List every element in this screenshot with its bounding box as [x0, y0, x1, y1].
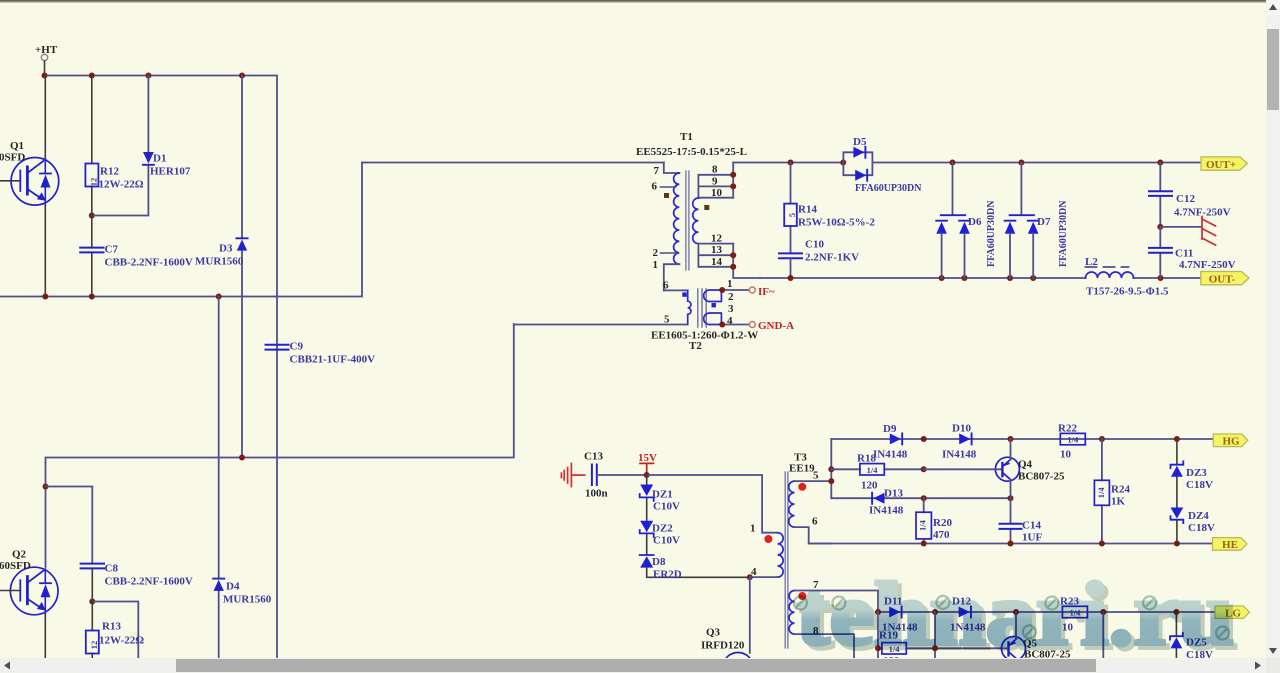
diode D1	[143, 76, 154, 165]
svg-text:5: 5	[813, 470, 819, 482]
diode D12	[959, 607, 971, 618]
junction dot D3 anode	[239, 455, 245, 461]
svg-text:9: 9	[712, 175, 718, 187]
svg-text:C7: C7	[105, 244, 119, 256]
wire R21 bus	[934, 612, 936, 658]
svg-text:10: 10	[711, 187, 723, 199]
svg-text:R20: R20	[933, 517, 952, 529]
wire Q1 emitter	[44, 205, 46, 297]
wire top rail	[45, 76, 278, 658]
wire HG rail	[831, 438, 1213, 440]
svg-text:R13: R13	[102, 621, 121, 633]
svg-text:R12: R12	[100, 166, 119, 178]
transistor Q3	[723, 653, 754, 673]
svg-text:Q1: Q1	[10, 140, 24, 152]
T1 secondary lower taps 12 13 14	[698, 244, 733, 267]
terminal GND-A	[749, 322, 755, 328]
wire OUT- rail	[760, 277, 1201, 279]
junction dots LG rail	[875, 609, 1179, 615]
transistor Q4	[924, 439, 1020, 498]
wire T3 pin5	[795, 480, 832, 482]
svg-text:CBB-2.2NF-1600V: CBB-2.2NF-1600V	[105, 576, 193, 588]
svg-text:1: 1	[653, 259, 659, 271]
svg-text:1: 1	[750, 523, 756, 535]
wire GND-A	[721, 324, 749, 326]
svg-text:C10V: C10V	[653, 535, 680, 547]
wire Q2 drain net	[46, 324, 514, 567]
svg-text:R18: R18	[857, 453, 876, 465]
wire T3 pin8	[795, 634, 855, 657]
svg-text:1/4: 1/4	[867, 465, 879, 475]
port OUT-	[1201, 272, 1249, 286]
capacitor C8	[81, 564, 104, 602]
svg-text:0SFD: 0SFD	[0, 152, 25, 164]
junction dots D13 row	[921, 466, 1014, 501]
junction dot pin1	[719, 287, 725, 293]
wire switch-node rail	[0, 163, 362, 297]
terminal IF~	[749, 287, 755, 293]
capacitor C9	[266, 345, 289, 350]
svg-text:7: 7	[654, 165, 660, 177]
svg-text:CBB21-1UF-400V: CBB21-1UF-400V	[290, 354, 376, 366]
scrollbar vertical	[1266, 0, 1280, 658]
T3 winding pins 7-8	[789, 591, 794, 635]
capacitor C13	[592, 465, 647, 486]
svg-text:D4: D4	[226, 581, 240, 593]
wire gate branch lower	[92, 602, 138, 658]
svg-text:C13: C13	[584, 451, 603, 463]
svg-text:FFA60UP30DN: FFA60UP30DN	[855, 183, 922, 194]
wire T1 pin1 exit	[664, 264, 680, 290]
zener DZ4	[1171, 508, 1184, 544]
svg-text:HER107: HER107	[150, 166, 191, 178]
svg-text:T2: T2	[689, 340, 702, 352]
svg-text:C12: C12	[1176, 193, 1195, 205]
svg-text:ER2D: ER2D	[653, 569, 682, 581]
svg-text:T1: T1	[680, 131, 693, 143]
junction dots top rail	[42, 73, 246, 79]
resistor R14	[784, 163, 797, 254]
scrollbar horizontal	[0, 658, 1266, 673]
svg-text:4.7NF-250V: 4.7NF-250V	[1179, 259, 1236, 271]
svg-text:1/4: 1/4	[1096, 487, 1106, 499]
svg-text:1: 1	[727, 278, 733, 290]
diode D4	[213, 297, 224, 658]
junction dots taps 13 14	[730, 252, 736, 270]
zener DZ1	[640, 475, 654, 521]
wire 15V to T3	[647, 475, 778, 533]
earth ground at C13	[561, 464, 584, 487]
node +HT terminal	[41, 54, 47, 60]
resistor R19	[878, 643, 1007, 654]
svg-text:D10: D10	[952, 423, 971, 435]
svg-text:C18V: C18V	[1188, 522, 1215, 534]
svg-text:100n: 100n	[585, 488, 608, 500]
junction dots taps 8 9	[730, 172, 736, 190]
wire C8 branch	[46, 487, 93, 564]
svg-text:6: 6	[812, 516, 818, 528]
svg-text:D5: D5	[853, 136, 867, 148]
junction dot node 4	[747, 574, 753, 580]
svg-text:R5W-10Ω-5%-2: R5W-10Ω-5%-2	[798, 217, 875, 229]
svg-text:+HT: +HT	[35, 44, 58, 56]
svg-text:2: 2	[653, 247, 659, 259]
svg-text:tehnari.ru: tehnari.ru	[796, 565, 1234, 664]
capacitor C10	[779, 253, 802, 278]
svg-text:8: 8	[712, 164, 718, 176]
svg-text:1UF: 1UF	[1022, 532, 1042, 544]
diode pair D7	[1005, 163, 1039, 279]
svg-text:GND-A: GND-A	[758, 320, 794, 332]
diode pair D5	[843, 147, 872, 181]
svg-text:OUT-: OUT-	[1209, 274, 1236, 286]
capacitor C11	[1149, 227, 1172, 278]
wire R12 to D1 jog	[92, 166, 149, 216]
svg-text:OUT+: OUT+	[1206, 159, 1236, 171]
wire LG rail	[878, 611, 1215, 613]
T1 upper tap bus	[732, 163, 734, 198]
svg-text:12W-22Ω: 12W-22Ω	[99, 179, 144, 191]
capacitor C7	[80, 216, 103, 297]
svg-text:IN4148: IN4148	[869, 505, 904, 517]
transistor Q2	[0, 567, 58, 615]
port HE	[1213, 538, 1248, 552]
wire upper-left bus	[830, 439, 832, 498]
diode D8	[640, 555, 750, 577]
T3 polarity dot 7	[798, 592, 806, 600]
svg-text:13: 13	[711, 244, 723, 256]
junction dot C12 C11	[1157, 224, 1163, 230]
svg-text:D9: D9	[883, 423, 897, 435]
T1 secondary winding	[693, 198, 699, 244]
svg-text:2: 2	[728, 291, 734, 303]
svg-text:D13: D13	[884, 488, 903, 500]
svg-text:HG: HG	[1222, 436, 1240, 448]
inductor L2	[1086, 267, 1134, 278]
T3 polarity dot 5	[798, 483, 806, 491]
wire to chassis ground	[1160, 226, 1201, 228]
T1 pin2 stub	[661, 252, 677, 254]
svg-text:DZ2: DZ2	[652, 523, 673, 535]
wire T1 primary feed	[362, 162, 664, 164]
svg-text:R24: R24	[1111, 484, 1130, 496]
wire T2 pin5	[514, 324, 688, 326]
diode D3	[236, 76, 247, 458]
T1 primary winding	[674, 173, 680, 264]
svg-text:C14: C14	[1022, 520, 1041, 532]
wire R25 bus	[1102, 612, 1104, 658]
svg-text:12: 12	[711, 233, 723, 245]
capacitor C12	[1149, 163, 1172, 227]
T3 winding pins 5-6	[789, 481, 795, 527]
diode D11	[889, 607, 901, 618]
T2 core	[698, 289, 706, 327]
port OUT+	[1201, 157, 1247, 171]
T3 core	[785, 472, 788, 648]
T2 pin numbers right	[727, 278, 734, 327]
T2 secondary winding 1-2	[704, 290, 722, 302]
zener DZ2	[640, 521, 654, 555]
svg-text:12W-22Ω: 12W-22Ω	[99, 635, 144, 647]
transistor Q1	[0, 158, 59, 206]
svg-text:L2: L2	[1085, 256, 1098, 268]
svg-text:C8: C8	[105, 563, 119, 575]
svg-text:6: 6	[663, 280, 669, 292]
junction dot R12 bottom	[89, 213, 95, 219]
T2 primary winding	[688, 290, 691, 324]
svg-text:1K: 1K	[1111, 496, 1126, 508]
wire T2 pin6 entry	[664, 289, 688, 291]
svg-text:15V: 15V	[638, 452, 657, 464]
svg-text:HE: HE	[1222, 539, 1238, 551]
svg-text:14: 14	[711, 256, 723, 268]
transistor Q5	[1002, 612, 1026, 661]
transformer T2	[514, 278, 794, 352]
wire OUT+ rail	[733, 162, 1213, 164]
svg-text:3: 3	[728, 303, 734, 315]
svg-text:2.2NF-1KV: 2.2NF-1KV	[805, 252, 859, 264]
zener DZ3	[1171, 439, 1184, 509]
svg-text:IRFD120: IRFD120	[701, 640, 745, 652]
wire Q2 emitter	[44, 615, 46, 658]
svg-text:12: 12	[88, 178, 98, 187]
resistor R12	[85, 76, 98, 216]
svg-text:T157-26-9.5-Φ1.5: T157-26-9.5-Φ1.5	[1086, 286, 1169, 298]
transformer T3	[750, 452, 878, 658]
svg-text:R14: R14	[798, 204, 817, 216]
junction dots HE rail	[921, 541, 1180, 547]
svg-text:FFA60UP30DN: FFA60UP30DN	[1058, 200, 1069, 267]
resistor R18	[831, 464, 923, 475]
resistor R24	[1094, 439, 1109, 544]
resistor R22	[1060, 433, 1085, 444]
junction dot 15V	[644, 472, 650, 478]
svg-text:470: 470	[933, 529, 950, 541]
diode D10	[959, 433, 971, 444]
junction dots OUT+ rail	[788, 160, 1164, 166]
svg-text:C10: C10	[805, 239, 824, 251]
svg-text:EE19: EE19	[789, 463, 815, 475]
diode pair D6	[936, 163, 970, 279]
junction dots upper-left bus	[828, 466, 834, 484]
zener DZ5	[1170, 612, 1183, 658]
junction dots OUT- rail	[788, 275, 1164, 281]
resistor R23	[1062, 606, 1087, 617]
svg-text:CBB-2.2NF-1600V: CBB-2.2NF-1600V	[105, 257, 193, 269]
svg-text:DZ3: DZ3	[1186, 467, 1207, 479]
port HG	[1213, 434, 1248, 448]
T3 polarity dot primary	[764, 535, 772, 543]
svg-text:D1: D1	[153, 153, 166, 165]
svg-text:12: 12	[89, 641, 99, 650]
watermark no-copy marks	[794, 596, 1229, 640]
wire D13 row	[831, 497, 1010, 499]
svg-text:4: 4	[751, 566, 757, 578]
svg-text:Q4: Q4	[1018, 459, 1033, 471]
wire Q1 collector	[44, 76, 46, 160]
junction dot C8 bottom	[89, 599, 95, 605]
T2 polarity square primary	[682, 292, 686, 296]
svg-text:120: 120	[861, 480, 878, 492]
junction dots switch rail	[42, 294, 221, 300]
svg-text:C9: C9	[290, 341, 304, 353]
junction dot pin4	[719, 322, 725, 328]
T1 pin numbers right	[711, 164, 723, 268]
svg-text:EE1605-1:260-Φ1.2-W: EE1605-1:260-Φ1.2-W	[651, 330, 758, 342]
wire T3 pin6	[795, 527, 832, 543]
T1 secondary upper taps 8 9 10	[698, 175, 733, 198]
power port 15V	[638, 452, 657, 475]
resistor R20	[916, 498, 931, 543]
T1 pin6 stub	[661, 186, 677, 188]
T3 primary winding pins 1-4	[778, 533, 784, 577]
wire HE rail	[809, 543, 1213, 545]
svg-text:BC807-25: BC807-25	[1018, 471, 1065, 483]
svg-text:6: 6	[652, 181, 658, 193]
T1 polarity square primary	[664, 193, 669, 198]
T1 polarity square secondary	[704, 205, 709, 210]
svg-text:10: 10	[1060, 449, 1072, 461]
wire T1 pin7 entry	[664, 163, 680, 174]
svg-text:5: 5	[664, 314, 670, 326]
svg-text:1/4: 1/4	[918, 519, 928, 531]
T1 pin numbers left	[652, 165, 660, 271]
svg-text:1/4: 1/4	[1067, 435, 1079, 445]
wire lower-left bus	[877, 612, 879, 658]
wire +HT stub	[44, 61, 46, 76]
junction dots HG rail	[921, 436, 1180, 442]
T2 polarity square secondary	[712, 303, 716, 307]
wire T3 pin7	[795, 591, 879, 613]
svg-text:D8: D8	[652, 556, 666, 568]
svg-text:C18V: C18V	[1186, 479, 1213, 491]
svg-text:Q2: Q2	[12, 549, 27, 561]
svg-text:FFA60UP30DN: FFA60UP30DN	[986, 200, 997, 267]
svg-text:EE5525-17:5-0.15*25-L: EE5525-17:5-0.15*25-L	[636, 146, 747, 158]
junction dots R19 row	[875, 645, 938, 651]
svg-text:D6: D6	[968, 216, 982, 228]
wire IF~	[721, 289, 749, 291]
svg-text:IN4148: IN4148	[942, 449, 977, 461]
svg-text:C11: C11	[1175, 248, 1193, 260]
wire to Q3	[749, 577, 751, 653]
transformer T1	[636, 131, 760, 290]
svg-text:DZ1: DZ1	[652, 489, 673, 501]
T1 core	[686, 171, 689, 270]
resistor R13	[86, 602, 99, 658]
diode D9	[890, 433, 902, 444]
svg-text:MUR1560: MUR1560	[223, 594, 272, 606]
svg-text:DZ4: DZ4	[1188, 510, 1209, 522]
svg-text:IN4148: IN4148	[873, 449, 908, 461]
svg-text:IF~: IF~	[758, 286, 775, 298]
T1 lower tap bus	[733, 244, 760, 278]
svg-text:60SFD: 60SFD	[0, 560, 31, 572]
port LG	[1215, 606, 1250, 620]
svg-text:D7: D7	[1037, 216, 1051, 228]
svg-text:MUR1560: MUR1560	[195, 256, 244, 268]
T2 secondary winding 3-4	[704, 313, 722, 325]
diode D13	[872, 493, 884, 504]
svg-text:R22: R22	[1058, 423, 1077, 435]
wire T3 pin4	[750, 576, 778, 578]
svg-text:C10V: C10V	[653, 501, 680, 513]
watermark tehnari.ru	[796, 565, 1238, 668]
svg-text:5: 5	[787, 213, 797, 217]
chassis ground symbol	[1202, 217, 1216, 246]
svg-text:Q3: Q3	[706, 627, 721, 639]
capacitor C14	[1000, 498, 1022, 543]
junction dot C8 branch	[43, 484, 49, 490]
svg-text:D3: D3	[219, 243, 233, 255]
